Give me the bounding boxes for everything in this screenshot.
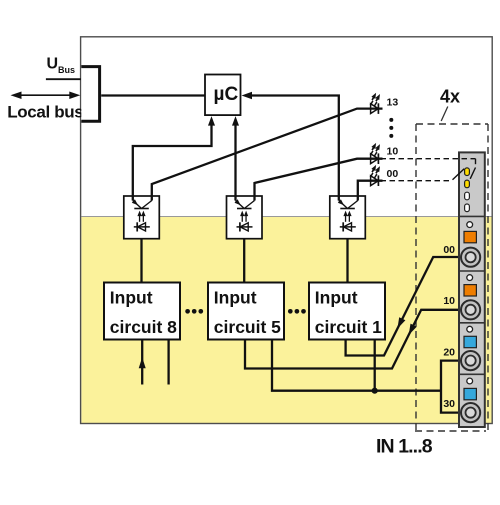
- svg-text:30: 30: [443, 398, 455, 410]
- svg-text:4x: 4x: [440, 87, 460, 107]
- svg-text:00: 00: [387, 168, 399, 180]
- svg-text:00: 00: [443, 244, 455, 256]
- svg-text:U: U: [47, 56, 59, 73]
- svg-text:IN 1...8: IN 1...8: [376, 436, 433, 458]
- svg-text:Bus: Bus: [58, 65, 75, 75]
- svg-text:Input: Input: [110, 288, 153, 308]
- svg-text:Local bus: Local bus: [7, 102, 83, 121]
- svg-text:circuit 8: circuit 8: [110, 317, 177, 337]
- svg-text:20: 20: [443, 346, 455, 358]
- svg-text:10: 10: [387, 146, 399, 158]
- svg-text:circuit 1: circuit 1: [315, 317, 382, 337]
- svg-text:Input: Input: [214, 288, 257, 308]
- svg-text:10: 10: [443, 295, 455, 307]
- svg-text:13: 13: [387, 97, 399, 109]
- svg-text:circuit 5: circuit 5: [214, 317, 281, 337]
- svg-text:Input: Input: [315, 288, 358, 308]
- svg-text:µC: µC: [214, 84, 239, 105]
